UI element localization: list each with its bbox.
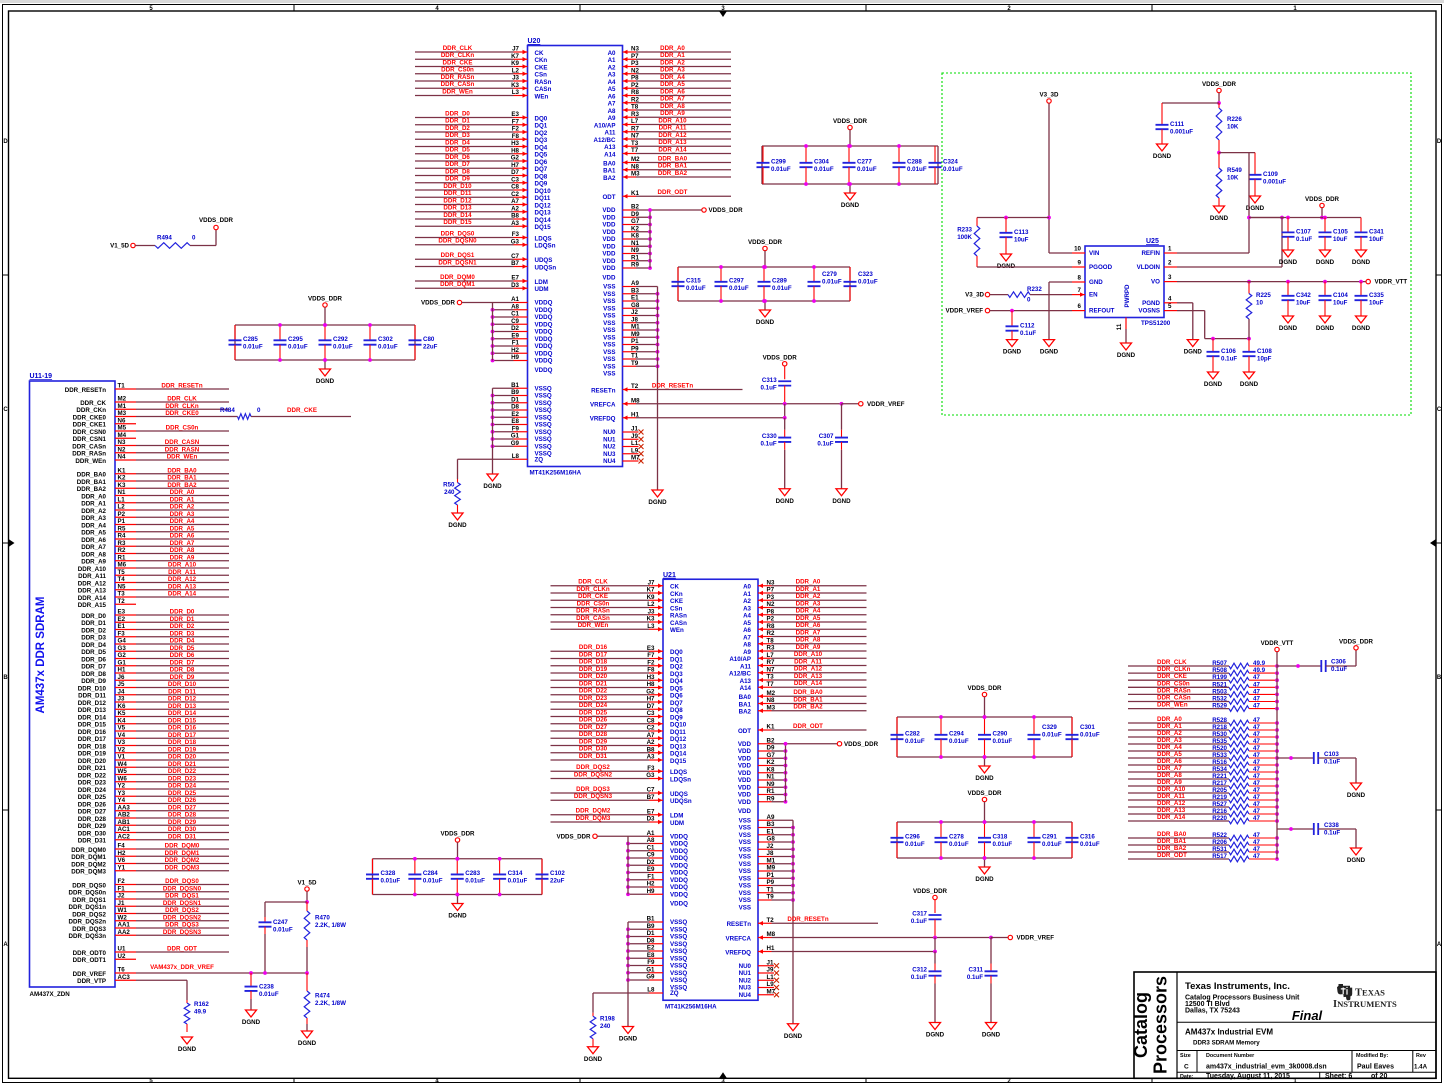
- svg-text:DDR_A7: DDR_A7: [1157, 765, 1182, 772]
- capacitor C313 0.1uF: [761, 377, 792, 404]
- node VREF divider junctions: [249, 971, 309, 975]
- svg-text:DGND: DGND: [1316, 259, 1335, 266]
- U21 pin C8 DQ10 net DDR_D26: [551, 717, 687, 729]
- svg-text:NU0: NU0: [739, 963, 752, 970]
- capacitor C111 0.001uF: [1156, 103, 1194, 144]
- svg-text:A3: A3: [608, 72, 616, 79]
- svg-text:DDR_CS0n: DDR_CS0n: [166, 425, 199, 432]
- svg-text:R529: R529: [1212, 703, 1227, 710]
- svg-text:DGND: DGND: [298, 1040, 317, 1047]
- resistor R484 0 net DDR_CKE: [220, 407, 351, 419]
- svg-text:DDR_DQS2: DDR_DQS2: [72, 911, 106, 918]
- resistor R219 47 net DDR_A11: [1128, 793, 1279, 803]
- svg-text:DDR_A4: DDR_A4: [796, 608, 821, 615]
- ground DGND (U21 VSS): [784, 1024, 803, 1040]
- svg-text:DGND: DGND: [1352, 259, 1371, 266]
- svg-text:1.4A: 1.4A: [1414, 1064, 1428, 1071]
- U20 pin L7 A10/AP net DDR_A10: [594, 117, 731, 129]
- U20 pin C2 DQ11 net DDR_D11: [415, 190, 551, 202]
- svg-text:R494: R494: [157, 235, 172, 242]
- U20 pin D3 UDM net DDR_DQM1: [415, 281, 549, 293]
- U20 pin C8 DQ10 net DDR_D10: [415, 183, 551, 195]
- svg-text:DDR_DQM2: DDR_DQM2: [71, 861, 106, 868]
- svg-text:DGND: DGND: [619, 1036, 638, 1043]
- svg-text:DDR_D4: DDR_D4: [81, 642, 106, 649]
- svg-text:0.01uF: 0.01uF: [273, 927, 293, 934]
- svg-text:VDDS_DDR: VDDS_DDR: [199, 217, 234, 224]
- svg-text:10K: 10K: [1227, 124, 1239, 131]
- svg-text:C301: C301: [1080, 724, 1095, 731]
- U11-19 pin V3 DDR_D18 net DDR_D18: [78, 739, 229, 750]
- U20 pin E8 VSSQ: [491, 418, 552, 429]
- ground DGND (bank): [756, 299, 775, 326]
- svg-text:C80: C80: [423, 336, 435, 343]
- svg-text:DQ7: DQ7: [670, 700, 683, 707]
- svg-text:ZQ: ZQ: [535, 456, 544, 463]
- svg-text:VSSQ: VSSQ: [670, 948, 687, 955]
- svg-text:DDR_D22: DDR_D22: [579, 688, 608, 695]
- svg-text:BA2: BA2: [603, 175, 616, 182]
- U11-19 pin R5 DDR_A5 net DDR_A5: [81, 525, 229, 536]
- U21 pin C3 DQ9 net DDR_D25: [551, 709, 684, 721]
- svg-text:VSS: VSS: [739, 846, 751, 853]
- svg-text:DDR_D20: DDR_D20: [579, 673, 608, 680]
- svg-text:0.01uF: 0.01uF: [465, 878, 485, 885]
- U21 pin D2 VDDQ: [626, 859, 688, 870]
- svg-text:100K: 100K: [957, 234, 972, 241]
- svg-text:A6: A6: [743, 627, 751, 634]
- svg-text:VSSQ: VSSQ: [670, 941, 687, 948]
- svg-text:DDR_A2: DDR_A2: [1157, 730, 1182, 737]
- svg-text:Dallas, TX 75243: Dallas, TX 75243: [1185, 1008, 1240, 1015]
- svg-text:BA1: BA1: [739, 701, 752, 708]
- svg-text:VDDR_VREF: VDDR_VREF: [946, 308, 984, 315]
- svg-text:VSS: VSS: [603, 334, 615, 341]
- svg-text:DDR_DQM3: DDR_DQM3: [576, 815, 611, 822]
- svg-text:DDR_A12: DDR_A12: [658, 132, 687, 139]
- svg-text:TEXAS: TEXAS: [1355, 988, 1385, 999]
- svg-text:INSTRUMENTS: INSTRUMENTS: [1333, 999, 1397, 1010]
- ground DGND (C111): [1153, 144, 1172, 160]
- svg-text:DDR_CLKn: DDR_CLKn: [441, 52, 475, 59]
- U21 pin D3 UDM net DDR_DQM3: [551, 815, 685, 827]
- svg-text:DDR_A14: DDR_A14: [794, 680, 823, 687]
- svg-text:DDR_D16: DDR_D16: [168, 725, 197, 732]
- svg-text:DDR_D28: DDR_D28: [168, 812, 197, 819]
- resistor R549 10K: [1210, 153, 1242, 222]
- ground DGND (bank): [975, 755, 994, 782]
- U21 pin C7 UDQS net DDR_DQS3: [551, 786, 688, 798]
- U11-19 pin AA2 DDR_DQS3n net DDR_DQSN3: [69, 929, 229, 940]
- svg-text:DDR_CSN1: DDR_CSN1: [73, 436, 107, 443]
- U11-19 pin W5 DDR_D22 net DDR_D22: [78, 768, 229, 779]
- svg-text:A: A: [1437, 942, 1442, 948]
- svg-text:DDR_A2: DDR_A2: [660, 59, 685, 66]
- U20 pin E9 VDDQ: [491, 332, 553, 343]
- svg-text:DDR_A10: DDR_A10: [1157, 786, 1186, 793]
- svg-text:DGND: DGND: [1117, 352, 1136, 359]
- svg-text:DDR_D31: DDR_D31: [78, 838, 107, 845]
- wire cap-bank rails: [897, 717, 1072, 757]
- U20 pin J3 RASn net DDR_RASn: [415, 74, 552, 86]
- capacitor C335 10uF: [1352, 282, 1384, 332]
- svg-text:NU3: NU3: [603, 451, 616, 458]
- svg-text:C108: C108: [1257, 348, 1272, 355]
- U21 pin C2 DQ11 net DDR_D27: [551, 724, 687, 736]
- U11-19 pin N1 DDR_A0 net DDR_A0: [81, 489, 229, 500]
- svg-text:C313: C313: [762, 377, 777, 384]
- svg-text:DDR_D12: DDR_D12: [78, 700, 107, 707]
- svg-text:DDR_D13: DDR_D13: [443, 205, 472, 212]
- U11-19 pin N3 DDR_CASn net DDR_CASN: [72, 439, 229, 450]
- U21 pin A7 DQ12 net DDR_D28: [551, 731, 687, 743]
- capacitor C109 0.001uF: [1246, 153, 1286, 212]
- svg-text:VDD: VDD: [602, 207, 616, 214]
- svg-text:C238: C238: [259, 983, 274, 990]
- svg-text:DDR_D2: DDR_D2: [170, 623, 195, 630]
- svg-text:RASn: RASn: [535, 79, 552, 86]
- svg-text:C111: C111: [1170, 121, 1185, 128]
- wire REFIN riser: [1247, 153, 1284, 253]
- svg-text:0.1uF: 0.1uF: [911, 918, 927, 925]
- regulator section boundary (green dashed): [942, 73, 1411, 415]
- svg-text:C306: C306: [1331, 659, 1346, 666]
- wire U20 VSS bus: [657, 287, 659, 491]
- svg-text:DQ11: DQ11: [670, 729, 686, 736]
- svg-text:C282: C282: [905, 731, 920, 738]
- U21 pin R1 VDD: [738, 788, 787, 799]
- wire U21 VDD bus: [784, 742, 788, 802]
- U20 pin P7 A1 net DDR_A1: [608, 52, 731, 64]
- svg-text:DDR_BA2: DDR_BA2: [167, 482, 197, 489]
- capacitor C317 0.1uF: [911, 911, 942, 938]
- svg-text:A13: A13: [604, 144, 616, 151]
- svg-text:A13: A13: [740, 678, 752, 685]
- svg-text:DDR_CKE1: DDR_CKE1: [73, 422, 107, 429]
- svg-text:DQ12: DQ12: [670, 736, 687, 743]
- U11-19 pin K3 DDR_BA2 net DDR_BA2: [77, 482, 229, 493]
- wire REFIN: [1177, 252, 1249, 254]
- U20 pin D2 VDDQ: [491, 325, 553, 336]
- svg-text:DDR_D5: DDR_D5: [445, 147, 470, 154]
- svg-text:0.01uF: 0.01uF: [772, 285, 792, 292]
- svg-text:C284: C284: [423, 870, 438, 877]
- wire VTT termination bus: [1276, 666, 1278, 859]
- svg-text:DDR_BA1: DDR_BA1: [793, 696, 823, 703]
- svg-text:R474: R474: [315, 993, 330, 1000]
- svg-text:DDR_A12: DDR_A12: [78, 580, 107, 587]
- U21 pin M8 VREFCA: [726, 931, 776, 942]
- svg-text:2: 2: [1168, 260, 1172, 267]
- svg-text:DDR_D8: DDR_D8: [170, 667, 195, 674]
- svg-text:DDR_A7: DDR_A7: [796, 629, 821, 636]
- svg-text:DDR_D2: DDR_D2: [81, 627, 106, 634]
- svg-text:0.01uF: 0.01uF: [949, 738, 969, 745]
- resistor R530 47 net DDR_A2: [1128, 730, 1279, 740]
- svg-text:DGND: DGND: [975, 876, 994, 883]
- svg-text:DDR_RASn: DDR_RASn: [1157, 687, 1191, 694]
- resistor R535 47 net DDR_A3: [1128, 737, 1279, 747]
- svg-text:C278: C278: [949, 834, 964, 841]
- U21 pin R7 A11 net DDR_A11: [740, 658, 867, 670]
- svg-text:DDR_D22: DDR_D22: [78, 772, 107, 779]
- U20 pin A8 VDDQ: [491, 303, 553, 314]
- svg-text:BA1: BA1: [603, 168, 616, 175]
- svg-text:VDD: VDD: [602, 258, 616, 265]
- svg-text:DDR_BA0: DDR_BA0: [1157, 831, 1187, 838]
- svg-text:DDR_D24: DDR_D24: [579, 702, 608, 709]
- svg-text:DGND: DGND: [584, 1056, 603, 1063]
- svg-text:DGND: DGND: [1347, 792, 1366, 799]
- svg-text:VDDS_DDR: VDDS_DDR: [748, 239, 783, 246]
- power flag VDDR_VREF: [991, 935, 1054, 942]
- resistor R527 47 net DDR_A12: [1128, 800, 1279, 810]
- svg-text:DQ9: DQ9: [670, 714, 683, 721]
- U20 pin T3 A13 net DDR_A13: [604, 139, 731, 151]
- U20 pin F1 VDDQ: [491, 340, 553, 351]
- svg-text:DDR_DQM0: DDR_DQM0: [71, 847, 106, 854]
- U20 pin G9 VSSQ: [491, 440, 552, 451]
- svg-text:VDD: VDD: [602, 214, 616, 221]
- U21 pin A8 VDDQ: [626, 837, 688, 848]
- svg-text:0.1uF: 0.1uF: [817, 440, 833, 447]
- U20 pin P8 A4 net DDR_A4: [608, 74, 731, 86]
- U20 pin M7 NU4 no-connect: [603, 455, 643, 466]
- U20 pin R9 VDD: [602, 262, 651, 273]
- svg-text:CKn: CKn: [670, 591, 683, 598]
- U11-19 pin U2 DDR_ODT1: [73, 953, 136, 964]
- node R226/R549/REFIN: [1217, 151, 1255, 155]
- U20 pin H1 VREFDQ: [590, 411, 640, 422]
- svg-text:DDR_DQM3: DDR_DQM3: [165, 864, 200, 871]
- svg-text:DGND: DGND: [1204, 381, 1223, 388]
- U21 pin C1 VDDQ: [626, 844, 688, 855]
- svg-text:VDDQ: VDDQ: [535, 343, 553, 350]
- svg-text:DDR_D21: DDR_D21: [579, 680, 608, 687]
- svg-text:DDR_D19: DDR_D19: [78, 751, 107, 758]
- U11-19 pin M4 DDR_CSN1: [73, 432, 136, 443]
- svg-text:VDD: VDD: [738, 808, 752, 815]
- svg-text:DDR_DQS2: DDR_DQS2: [576, 764, 610, 771]
- svg-text:DQ8: DQ8: [535, 173, 548, 180]
- wire cap-bank rails: [678, 267, 850, 301]
- svg-text:DDR_D17: DDR_D17: [579, 651, 608, 658]
- svg-text:0.1uF: 0.1uF: [1324, 759, 1340, 766]
- svg-text:R220: R220: [1212, 815, 1227, 822]
- svg-text:DDR_RESETn: DDR_RESETn: [652, 382, 693, 389]
- svg-text:DDR_D20: DDR_D20: [168, 754, 197, 761]
- capacitor C291 0.01uF: [1028, 820, 1062, 860]
- ground DGND (U20 VSS): [648, 490, 667, 506]
- svg-text:A14: A14: [604, 151, 616, 158]
- svg-text:UDQSn: UDQSn: [670, 798, 692, 805]
- svg-text:VSSQ: VSSQ: [535, 400, 552, 407]
- U20 pin B1 VSSQ: [493, 382, 552, 393]
- wire VOSNS: [1177, 311, 1251, 341]
- svg-text:R549: R549: [1227, 167, 1242, 174]
- U21 pin A3 DQ15 net DDR_D31: [551, 753, 687, 765]
- svg-text:0.01uF: 0.01uF: [771, 166, 791, 173]
- resistor R220 47 net DDR_A14: [1128, 814, 1279, 824]
- svg-text:DDR_A5: DDR_A5: [796, 615, 821, 622]
- svg-text:C247: C247: [273, 919, 288, 926]
- svg-text:VO: VO: [1151, 279, 1160, 286]
- svg-text:DDR_A5: DDR_A5: [1157, 751, 1182, 758]
- svg-text:A2: A2: [608, 64, 616, 71]
- svg-text:Processors: Processors: [1151, 976, 1171, 1074]
- resistor R206 47 net DDR_BA1: [1128, 838, 1279, 848]
- svg-text:Rev: Rev: [1416, 1053, 1426, 1059]
- svg-text:A1: A1: [608, 57, 616, 64]
- svg-text:0.01uF: 0.01uF: [243, 344, 263, 351]
- svg-text:DDR_D26: DDR_D26: [579, 717, 608, 724]
- svg-text:BA0: BA0: [603, 160, 616, 167]
- svg-text:DDR_D21: DDR_D21: [168, 761, 197, 768]
- capacitor C288 0.01uF: [893, 144, 927, 186]
- U11-19 pin T3 DDR_A14 net DDR_A14: [78, 591, 229, 602]
- svg-text:240: 240: [600, 1023, 611, 1030]
- svg-text:DQ15: DQ15: [670, 758, 687, 765]
- U20 pin D9 VDD: [602, 211, 651, 222]
- U20 pin J7 CK net DDR_CLK: [415, 45, 544, 57]
- svg-text:DDR_A9: DDR_A9: [796, 644, 821, 651]
- capacitor C247 0.01uF: [259, 917, 293, 973]
- svg-text:DDR_BA0: DDR_BA0: [167, 467, 197, 474]
- svg-text:DQ5: DQ5: [535, 152, 548, 159]
- svg-text:VDDQ: VDDQ: [670, 901, 688, 908]
- svg-text:DDR_D10: DDR_D10: [168, 681, 197, 688]
- svg-text:Modified By:: Modified By:: [1356, 1053, 1389, 1059]
- U20 pin F3 LDQS net DDR_DQS0: [415, 230, 552, 242]
- wire VO to VDDR_VTT: [1177, 280, 1366, 284]
- svg-text:DDR_A8: DDR_A8: [81, 551, 106, 558]
- svg-text:C328: C328: [381, 870, 396, 877]
- capacitor C278 0.01uF: [935, 820, 969, 860]
- svg-text:DDR_D14: DDR_D14: [168, 710, 197, 717]
- svg-text:DDR_A4: DDR_A4: [660, 74, 685, 81]
- svg-text:R205: R205: [1212, 787, 1227, 794]
- svg-text:C109: C109: [1263, 171, 1278, 178]
- svg-text:DDR_CKE: DDR_CKE: [287, 407, 317, 414]
- svg-text:10uF: 10uF: [1296, 300, 1311, 307]
- U21 pin K3 CASn net DDR_CASn: [551, 615, 688, 627]
- resistor R520 47 net DDR_A4: [1128, 744, 1279, 754]
- U20 pin H8 DQ5 net DDR_D5: [415, 147, 548, 159]
- U21 pin B7 UDQSn net DDR_DQSN3: [551, 793, 692, 805]
- svg-text:VSS: VSS: [603, 305, 615, 312]
- capacitor C238 0.01uF: [245, 973, 279, 1010]
- svg-text:U21: U21: [663, 572, 676, 579]
- svg-text:DDR_D26: DDR_D26: [168, 797, 197, 804]
- U21 pin E2 VSSQ: [626, 945, 687, 956]
- svg-text:DDR_D0: DDR_D0: [170, 609, 195, 616]
- wire C113 rail: [977, 216, 1049, 220]
- svg-text:DDR_D18: DDR_D18: [579, 659, 608, 666]
- svg-text:DDR_A1: DDR_A1: [660, 52, 685, 59]
- wire VREFDQ: [772, 951, 936, 953]
- svg-text:C113: C113: [1014, 229, 1029, 236]
- capacitor C328 0.01uF: [366, 859, 400, 895]
- U11-19 pin W4 DDR_D21 net DDR_D21: [78, 761, 229, 772]
- svg-text:VREFCA: VREFCA: [590, 402, 616, 409]
- svg-text:C329: C329: [1042, 724, 1057, 731]
- svg-text:VIN: VIN: [1089, 250, 1100, 257]
- U11-19 pin AC2 DDR_D31 net DDR_D31: [78, 833, 229, 844]
- capacitor C315 0.01uF: [672, 267, 706, 301]
- svg-text:DDR_WEn: DDR_WEn: [167, 454, 198, 461]
- capacitor C304 0.01uF: [800, 144, 834, 186]
- svg-text:A4: A4: [608, 79, 616, 86]
- U20 pin L9 NU3 no-connect: [603, 447, 643, 458]
- U11-19 pin J6 DDR_D9 net DDR_D9: [81, 674, 229, 685]
- svg-text:C291: C291: [1042, 834, 1057, 841]
- svg-text:CKE: CKE: [535, 64, 548, 71]
- svg-text:C289: C289: [772, 278, 787, 285]
- power flag VDDS_DDR (U21 VDDQ): [556, 833, 628, 840]
- svg-text:0.01uF: 0.01uF: [1042, 841, 1062, 848]
- svg-text:R533: R533: [1212, 752, 1227, 759]
- U11-19 pin K6 DDR_D13 net DDR_D13: [78, 703, 229, 714]
- svg-text:VDD: VDD: [602, 222, 616, 229]
- svg-text:R221: R221: [1212, 773, 1227, 780]
- svg-text:VDDQ: VDDQ: [670, 870, 688, 877]
- svg-text:DDR_A15: DDR_A15: [78, 602, 107, 609]
- U21 pin P7 A1 net DDR_A1: [743, 586, 866, 598]
- svg-text:C102: C102: [550, 870, 565, 877]
- svg-text:C290: C290: [993, 731, 1008, 738]
- svg-text:DDR_RESETn: DDR_RESETn: [161, 383, 202, 390]
- svg-text:DDR_CASn: DDR_CASn: [72, 443, 106, 450]
- svg-text:DDR_D9: DDR_D9: [445, 176, 470, 183]
- U11-19 pin AA3 DDR_D27 net DDR_D27: [78, 804, 229, 815]
- svg-text:ZQ: ZQ: [670, 990, 679, 997]
- svg-text:DDR_D24: DDR_D24: [168, 783, 197, 790]
- svg-text:DDR_RASn: DDR_RASn: [441, 74, 475, 81]
- svg-text:VSSQ: VSSQ: [670, 934, 687, 941]
- U20 pin K8 VDD: [602, 233, 651, 244]
- capacitor C297 0.01uF: [715, 265, 749, 303]
- U20 pin C3 DQ9 net DDR_D9: [415, 176, 548, 188]
- svg-text:R517: R517: [1212, 853, 1227, 860]
- svg-text:0.01uF: 0.01uF: [1042, 732, 1062, 739]
- svg-text:49.9: 49.9: [194, 1009, 207, 1016]
- svg-text:A7: A7: [608, 101, 616, 108]
- U21 pin E8 VSSQ: [626, 952, 687, 963]
- U20 pin A9 VSS: [603, 280, 657, 291]
- svg-text:DDR_A8: DDR_A8: [660, 103, 685, 110]
- U11-19 pin E2 DDR_D1 net DDR_D1: [81, 616, 229, 627]
- U21 pin H1 VREFDQ: [725, 945, 775, 956]
- svg-text:C323: C323: [858, 271, 873, 278]
- svg-text:R470: R470: [315, 915, 330, 922]
- svg-text:DDR_A7: DDR_A7: [170, 540, 195, 547]
- svg-text:DQ5: DQ5: [670, 685, 683, 692]
- svg-text:DDR_DQS3: DDR_DQS3: [165, 922, 199, 929]
- svg-text:VDD: VDD: [738, 784, 752, 791]
- U11-19 pin N4 DDR_WEn net DDR_WEn: [75, 454, 229, 465]
- power flag VDDS_DDR (bank): [967, 685, 1002, 719]
- power flag V3_3D (EN): [965, 292, 1008, 299]
- ground DGND (U20 VSSQ): [483, 474, 502, 490]
- resistor R522 47 net DDR_BA0: [1128, 831, 1279, 841]
- svg-text:DDR_DQSN2: DDR_DQSN2: [574, 771, 613, 778]
- svg-text:DGND: DGND: [784, 1033, 803, 1040]
- power flag VDDR_VTT (VO): [1366, 279, 1407, 286]
- U21 pin K9 CKE net DDR_CKE: [551, 593, 684, 605]
- svg-text:VDD: VDD: [738, 777, 752, 784]
- svg-text:RASn: RASn: [670, 613, 687, 620]
- svg-text:C317: C317: [912, 911, 927, 918]
